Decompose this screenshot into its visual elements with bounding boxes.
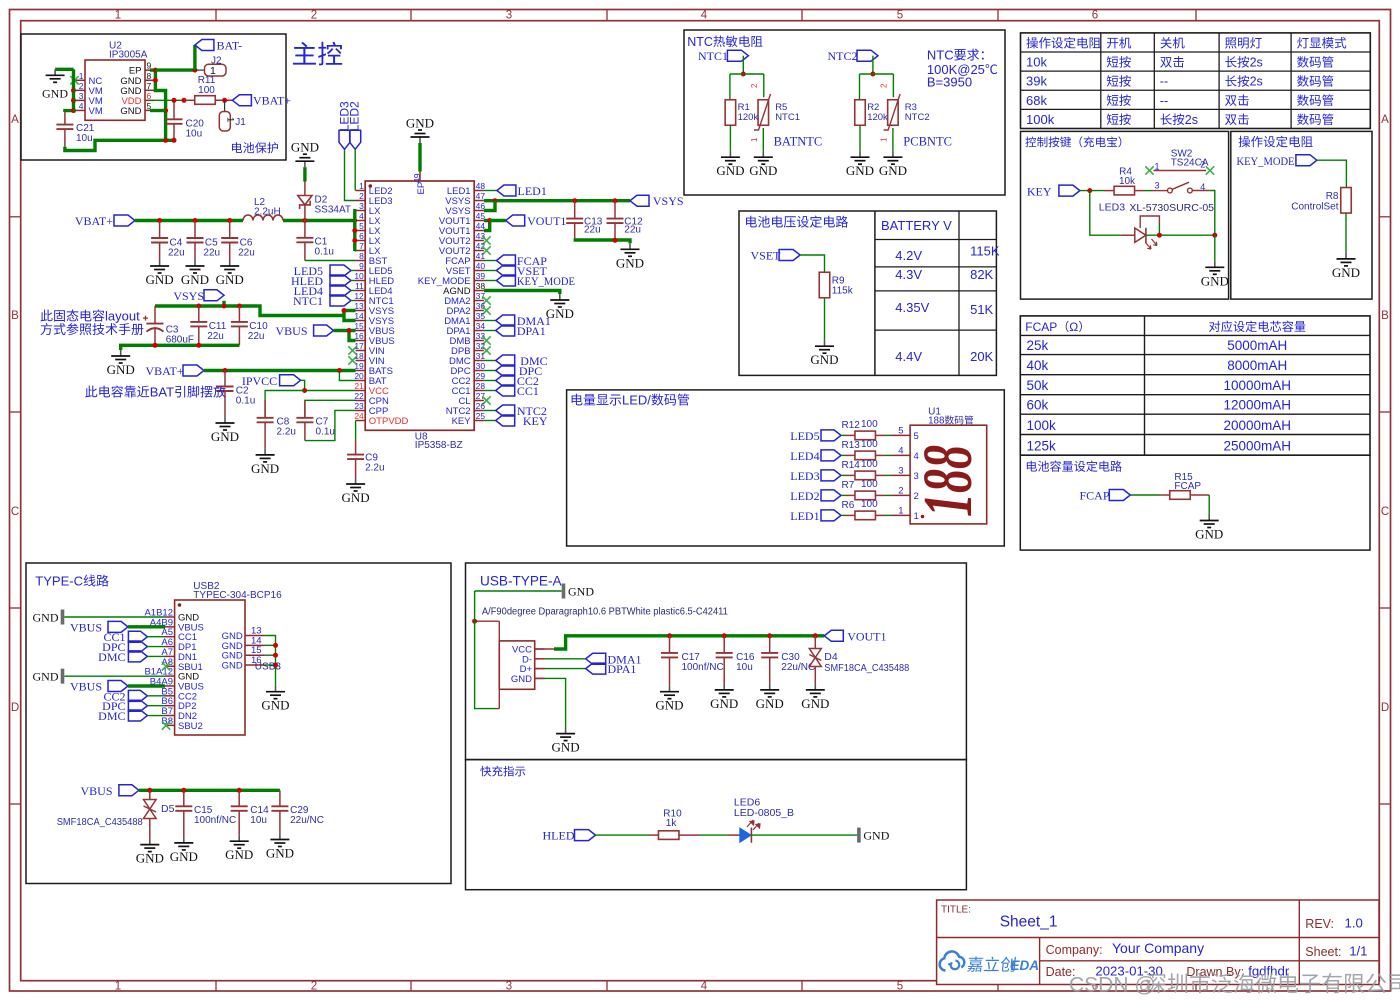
svg-text:SMF18CA_C435488: SMF18CA_C435488 xyxy=(57,817,143,828)
svg-text:GND: GND xyxy=(222,661,243,672)
svg-text:EDA: EDA xyxy=(1011,958,1040,973)
svg-text:10k: 10k xyxy=(1026,55,1047,70)
svg-text:14: 14 xyxy=(354,311,364,321)
svg-text:GND: GND xyxy=(266,846,294,861)
wire VCC to C8 xyxy=(265,391,305,418)
svg-text:A: A xyxy=(11,114,19,126)
svg-text:115k: 115k xyxy=(832,286,854,297)
TYPE-C bottom VBUS rail xyxy=(119,785,139,796)
U1 pin 3 xyxy=(890,474,910,476)
wire KEY to R4 xyxy=(1080,190,1104,192)
net flags LED5 HLED LED4 NTC1 xyxy=(330,265,351,276)
svg-text:VOUT1: VOUT1 xyxy=(527,214,566,228)
svg-text:GND: GND xyxy=(181,272,209,287)
svg-text:2.2u: 2.2u xyxy=(365,463,384,474)
svg-text:4.3V: 4.3V xyxy=(895,267,922,282)
svg-text:J2: J2 xyxy=(211,56,222,67)
U8 left pins xyxy=(356,190,366,192)
svg-text:GND: GND xyxy=(42,87,68,101)
JLCEDA logo xyxy=(940,951,965,970)
svg-text:D: D xyxy=(11,702,19,714)
svg-text:38: 38 xyxy=(476,281,486,291)
U8 EP pin 49 xyxy=(419,172,421,182)
AGND wire to GND xyxy=(484,291,560,295)
svg-text:GND: GND xyxy=(716,163,744,178)
label 电池电压设定电路 xyxy=(746,216,757,228)
TYPE-C GND bar flags xyxy=(61,610,65,625)
battery voltage table xyxy=(874,211,876,375)
svg-text:GND: GND xyxy=(655,698,683,713)
svg-text:GND: GND xyxy=(756,696,784,711)
svg-text:2: 2 xyxy=(914,491,919,502)
svg-text:GND: GND xyxy=(291,140,319,155)
net flag LED2 (vertical) xyxy=(350,130,361,149)
svg-text:CSDN @: CSDN @ xyxy=(1069,974,1156,997)
svg-text:8: 8 xyxy=(359,251,364,261)
svg-text:NTC1: NTC1 xyxy=(775,112,800,123)
svg-text:Ω: Ω xyxy=(1069,320,1078,334)
svg-text:27: 27 xyxy=(476,391,486,401)
svg-text:7: 7 xyxy=(359,241,364,251)
svg-text:LED1: LED1 xyxy=(790,509,819,523)
capacitor C30 22u/NC xyxy=(769,636,771,653)
GND bar flag top xyxy=(562,584,566,599)
svg-text:23: 23 xyxy=(354,401,364,411)
wire EP to BAT- and J2 xyxy=(155,68,195,71)
svg-text:VOUT1: VOUT1 xyxy=(847,629,886,643)
svg-text:4: 4 xyxy=(701,10,708,22)
svg-text:GND: GND xyxy=(810,352,838,367)
svg-text:C: C xyxy=(1381,506,1389,518)
LED diode LED3 xyxy=(1121,234,1135,236)
wire LED3 flag to pin2 xyxy=(345,149,356,200)
svg-text:7: 7 xyxy=(147,81,152,91)
svg-text:47: 47 xyxy=(476,191,486,201)
svg-text:4.4V: 4.4V xyxy=(895,349,922,364)
net flag NTC2 xyxy=(857,50,878,61)
wire NTC2 node xyxy=(872,56,874,74)
wire FCAP to R15 xyxy=(1130,494,1159,496)
svg-text:2.2u: 2.2u xyxy=(277,427,296,438)
svg-text:37: 37 xyxy=(476,291,486,301)
resistor R9 115k xyxy=(819,272,830,298)
GND net flag at U2 xyxy=(55,68,73,71)
svg-text:50k: 50k xyxy=(1027,378,1049,393)
wire pin46 to VSYS xyxy=(484,201,495,211)
resistor R11 100 xyxy=(184,99,194,101)
svg-text:2: 2 xyxy=(898,485,903,496)
wire shell to GND left xyxy=(498,621,500,641)
net flag LED4 xyxy=(821,450,841,461)
thermistor R5 NTC1 xyxy=(758,100,769,126)
resistor R13 100 xyxy=(841,454,846,456)
svg-text:LED1: LED1 xyxy=(518,184,547,198)
svg-text:REV:: REV: xyxy=(1305,917,1334,931)
wire VDD net xyxy=(150,99,184,101)
svg-text:ControlSet: ControlSet xyxy=(1291,202,1338,213)
U1 pin 4 xyxy=(890,454,910,456)
USB-A GND pin wire xyxy=(535,677,545,679)
key mode box outline xyxy=(1231,131,1372,299)
wire NTC1 node xyxy=(742,56,744,74)
capacitor C12 22u xyxy=(614,201,616,219)
svg-text:GND: GND xyxy=(552,740,580,755)
wire LED to GND corner xyxy=(1146,234,1215,236)
svg-text:TYPEC-304-BCP16: TYPEC-304-BCP16 xyxy=(193,590,282,601)
CSDN watermark xyxy=(1069,973,1400,997)
svg-text:35: 35 xyxy=(476,311,486,321)
svg-text:5: 5 xyxy=(897,981,903,993)
svg-text:25: 25 xyxy=(476,411,486,421)
net flags NTC2 KEY xyxy=(484,410,496,412)
svg-text:24: 24 xyxy=(354,411,364,421)
svg-text:1: 1 xyxy=(1155,162,1160,172)
LED6 arrows xyxy=(747,820,760,830)
svg-text:VBUS: VBUS xyxy=(70,620,102,634)
inductor L2 2.2uH xyxy=(243,215,283,220)
junction dots on VM bus xyxy=(71,88,76,93)
svg-text:6: 6 xyxy=(359,231,364,241)
svg-text:IP3005A: IP3005A xyxy=(109,50,148,61)
svg-text:4: 4 xyxy=(79,101,84,111)
svg-text:1.0: 1.0 xyxy=(1345,916,1363,931)
svg-text:0.1u: 0.1u xyxy=(236,396,255,407)
capacitor C4 22u xyxy=(159,221,161,239)
svg-text:68k: 68k xyxy=(1026,93,1047,108)
net flags DMC DPC CC2 CC1 xyxy=(484,360,496,362)
svg-text:A: A xyxy=(1381,114,1389,126)
svg-text:100nf/NC: 100nf/NC xyxy=(682,662,724,673)
svg-text:4: 4 xyxy=(701,981,708,993)
svg-text:R8: R8 xyxy=(1326,191,1339,202)
capacitor C11 22u xyxy=(198,306,200,322)
net flag IPVCC xyxy=(280,375,301,386)
svg-text:2: 2 xyxy=(359,191,364,201)
GND above D2 xyxy=(303,167,306,181)
svg-text:0.1u: 0.1u xyxy=(316,427,335,438)
VBUS wire and pin bus xyxy=(334,329,356,332)
svg-text:5000mAH: 5000mAH xyxy=(1227,338,1287,353)
wire C21 bottom rail xyxy=(65,140,176,150)
svg-text:22u/NC: 22u/NC xyxy=(781,662,815,673)
TVS diode D5 SMF18CA xyxy=(149,790,151,799)
svg-text:4.2V: 4.2V xyxy=(895,248,922,263)
svg-text:22: 22 xyxy=(354,391,364,401)
wire USB2 GND pins join xyxy=(265,636,276,686)
resistor R12 100 xyxy=(841,434,846,436)
svg-text:0.1u: 0.1u xyxy=(315,247,334,258)
svg-text:NTC1: NTC1 xyxy=(698,49,728,63)
svg-text:layout: layout xyxy=(105,309,140,324)
VSYS thick wire right xyxy=(484,199,630,202)
svg-text:125k: 125k xyxy=(1027,438,1057,453)
svg-text:LED4: LED4 xyxy=(790,449,819,463)
svg-text:4: 4 xyxy=(898,445,903,456)
svg-text:KEY: KEY xyxy=(452,416,472,427)
U2 right pins xyxy=(145,69,155,71)
svg-text:LED-0805_B: LED-0805_B xyxy=(734,807,794,819)
svg-text:100: 100 xyxy=(861,439,878,450)
resistor R14 100 xyxy=(841,474,846,476)
svg-text:3: 3 xyxy=(79,91,84,101)
resistor R8 ControlSet xyxy=(1341,188,1352,214)
svg-text:FCAP: FCAP xyxy=(1079,489,1109,503)
svg-text:44: 44 xyxy=(476,221,486,231)
svg-text:10u: 10u xyxy=(736,662,753,673)
svg-text:1: 1 xyxy=(898,505,903,516)
svg-text:VSET: VSET xyxy=(751,249,782,263)
svg-text:3: 3 xyxy=(1155,181,1160,191)
LED3 pin2 bracket xyxy=(1140,216,1159,228)
svg-text:22u: 22u xyxy=(248,331,265,342)
resistor R2 120k xyxy=(855,100,866,126)
wire L2 to LX pins xyxy=(283,219,355,222)
C13 C12 ground rail xyxy=(574,240,630,243)
net flag VBAT+ at BATS xyxy=(183,365,204,376)
svg-text:82K: 82K xyxy=(970,267,993,282)
svg-text:GND: GND xyxy=(251,461,279,476)
net flag VSET left xyxy=(779,250,800,261)
capacitor C2 0.1u xyxy=(224,371,226,387)
wire HLED to R10 xyxy=(596,834,650,836)
svg-text:GND: GND xyxy=(170,849,198,864)
svg-text:25000mAH: 25000mAH xyxy=(1224,438,1292,453)
svg-text:Your Company: Your Company xyxy=(1112,940,1204,956)
svg-text:GND: GND xyxy=(1201,273,1229,288)
svg-text:22u/NC: 22u/NC xyxy=(290,815,324,826)
svg-text:8: 8 xyxy=(147,71,152,81)
svg-text:3: 3 xyxy=(506,981,512,993)
svg-text:FCAP: FCAP xyxy=(1025,320,1057,334)
label 电池保护 xyxy=(232,142,242,153)
U1 pin 5 xyxy=(890,434,910,436)
capacitor C6 22u xyxy=(229,221,231,239)
wire pin44 to VOUT1 xyxy=(484,221,490,231)
svg-text:GND: GND xyxy=(261,698,289,713)
svg-text:2s: 2s xyxy=(1185,113,1198,127)
svg-text:R14: R14 xyxy=(842,460,861,471)
resistor R15 FCAP xyxy=(1160,494,1170,496)
U1 pin1 origin dot xyxy=(921,515,925,519)
svg-text:22u: 22u xyxy=(168,248,185,259)
svg-text:A/F90degree Dparagraph10.6 PBT: A/F90degree Dparagraph10.6 PBTWhite plas… xyxy=(482,607,728,618)
svg-text:D4: D4 xyxy=(824,651,838,663)
net flag LED5 xyxy=(821,430,841,441)
svg-text:1: 1 xyxy=(359,181,364,191)
U2 left pins xyxy=(76,79,86,81)
capacitor C8 2.2u xyxy=(264,400,266,418)
svg-text:6: 6 xyxy=(147,91,152,101)
LED3 arrows xyxy=(1146,239,1158,249)
svg-text:NTC2: NTC2 xyxy=(828,49,858,63)
label 快充指示 xyxy=(480,766,491,777)
svg-text:GND: GND xyxy=(749,163,777,178)
connector J2 xyxy=(195,69,205,71)
VSYS net flag and C3 C11 C10 rail xyxy=(204,290,224,301)
svg-text:DPA1: DPA1 xyxy=(517,324,546,338)
svg-text:10: 10 xyxy=(354,271,364,281)
wires D- D+ to flags xyxy=(535,658,545,660)
svg-text:PCBNTC: PCBNTC xyxy=(903,135,952,149)
svg-text:26: 26 xyxy=(476,401,486,411)
net flag LED1 xyxy=(484,190,497,192)
svg-text:USB3: USB3 xyxy=(255,662,282,673)
wire SW2 pin4 down xyxy=(1210,191,1215,236)
svg-text:34: 34 xyxy=(476,321,486,331)
svg-text:VBUS: VBUS xyxy=(275,324,307,338)
svg-text:IP5358-BZ: IP5358-BZ xyxy=(415,440,463,451)
net flags DMA1 DPA1 xyxy=(484,320,496,322)
svg-text:SS34AT: SS34AT xyxy=(315,205,352,216)
TYPE-C signal flags group B xyxy=(128,690,147,701)
diode D2 SS34AT schottky xyxy=(304,182,306,196)
svg-text:5: 5 xyxy=(897,10,903,22)
svg-text:2: 2 xyxy=(79,81,84,91)
bottom rail to GND xyxy=(121,345,240,350)
net flag LED1 xyxy=(821,510,841,521)
svg-text:3: 3 xyxy=(914,471,919,482)
svg-text:GND: GND xyxy=(33,670,59,684)
TYPE-C box outline xyxy=(26,563,451,884)
svg-text:32: 32 xyxy=(476,341,486,351)
svg-text:LED2: LED2 xyxy=(347,101,361,131)
svg-text:49: 49 xyxy=(412,173,422,183)
net flag VBUS xyxy=(314,325,334,336)
svg-text:GND: GND xyxy=(879,163,907,178)
net flag VBAT+ right of R11 xyxy=(232,95,251,106)
svg-text:--: -- xyxy=(1160,94,1168,108)
svg-text:100k: 100k xyxy=(1026,112,1055,127)
svg-text:R12: R12 xyxy=(842,420,861,431)
label 电量显示LED/数码管 xyxy=(572,394,583,406)
capacitor C7 0.1u xyxy=(304,400,306,418)
svg-text:KEY_MODE: KEY_MODE xyxy=(517,274,575,288)
svg-text:XL-5730SURC-05: XL-5730SURC-05 xyxy=(1129,202,1214,214)
LX pin bus xyxy=(353,209,356,251)
wire KEY_MODE to R8 xyxy=(1317,160,1347,191)
svg-text:2: 2 xyxy=(750,83,759,88)
U1 188 display body xyxy=(910,425,987,524)
svg-text:DMC: DMC xyxy=(98,709,125,723)
svg-text:R13: R13 xyxy=(842,440,861,451)
svg-text:11: 11 xyxy=(355,281,364,291)
svg-text:3: 3 xyxy=(898,465,903,476)
svg-text:22u: 22u xyxy=(203,248,220,259)
svg-text:NTC1: NTC1 xyxy=(293,294,323,308)
svg-text:GND: GND xyxy=(863,829,889,843)
svg-text:VM: VM xyxy=(89,106,103,117)
svg-text:SBU2: SBU2 xyxy=(178,721,203,732)
svg-text:22u: 22u xyxy=(238,248,255,259)
svg-text:40: 40 xyxy=(476,261,486,271)
U8 right pins xyxy=(474,190,484,192)
title block outline xyxy=(937,900,1379,985)
svg-text:TYPE-C: TYPE-C xyxy=(35,574,83,589)
net flag LED3 (vertical) xyxy=(339,130,350,149)
svg-text:21: 21 xyxy=(354,381,364,391)
wire KEY node down to LED xyxy=(1090,191,1121,236)
svg-text:BATTERY V: BATTERY V xyxy=(881,218,952,233)
svg-text:22u: 22u xyxy=(624,225,641,236)
label 操作设定电阻 right xyxy=(1239,136,1251,148)
svg-text:SMF18CA_C435488: SMF18CA_C435488 xyxy=(824,663,909,674)
svg-text:J1: J1 xyxy=(235,117,246,128)
LED6 blue LED xyxy=(700,834,728,836)
battery protection box outline xyxy=(21,34,286,160)
capacitor C15 100nf/NC xyxy=(183,790,185,806)
svg-text:39k: 39k xyxy=(1026,74,1047,89)
svg-text:1: 1 xyxy=(79,71,84,81)
net flags DMA1 DPA1 usb xyxy=(586,653,606,664)
svg-text:LED3: LED3 xyxy=(790,469,819,483)
connector J1 xyxy=(224,100,226,111)
svg-text:42: 42 xyxy=(476,241,486,251)
svg-text:GND: GND xyxy=(33,611,59,625)
svg-text:GND: GND xyxy=(1195,527,1223,542)
svg-text:NTC: NTC xyxy=(687,35,713,49)
USB-A connector body xyxy=(499,641,534,689)
svg-text:Sheet:: Sheet: xyxy=(1305,945,1341,959)
svg-text:120k: 120k xyxy=(867,112,888,123)
svg-text:48: 48 xyxy=(476,181,486,191)
svg-text:40k: 40k xyxy=(1027,358,1049,373)
svg-text:LED5: LED5 xyxy=(790,429,819,443)
svg-text:TITLE:: TITLE: xyxy=(941,905,971,916)
svg-text:1: 1 xyxy=(750,137,759,142)
svg-text:KEY: KEY xyxy=(523,414,548,428)
label 控制按键（充电宝） xyxy=(1025,137,1036,148)
svg-text:1: 1 xyxy=(880,137,889,142)
note 此固态电容layout xyxy=(41,310,53,322)
svg-text:D5: D5 xyxy=(161,803,175,815)
svg-text:DMC: DMC xyxy=(98,650,125,664)
svg-text:GND: GND xyxy=(616,255,644,270)
wire R15 to GND xyxy=(1208,495,1210,515)
capacitor C21 10u xyxy=(64,112,66,125)
svg-text:GND: GND xyxy=(801,696,829,711)
TVS diode D4 SMF18CA xyxy=(814,636,816,649)
svg-text:3: 3 xyxy=(506,10,512,22)
battery voltage box outline xyxy=(739,211,996,375)
svg-text:GND: GND xyxy=(846,163,874,178)
net flag VOUT1 xyxy=(490,219,506,222)
svg-text:36: 36 xyxy=(476,301,486,311)
svg-text:GND: GND xyxy=(225,847,253,862)
svg-text:CC1: CC1 xyxy=(517,384,539,398)
svg-text:NTC2: NTC2 xyxy=(905,112,930,123)
resistor R1 120k xyxy=(725,100,736,126)
USB-TYPE-A box outline xyxy=(466,563,967,760)
svg-text:GND: GND xyxy=(120,106,141,117)
svg-text:4: 4 xyxy=(359,211,364,221)
GND above EP xyxy=(418,143,421,172)
svg-text:GND: GND xyxy=(146,272,174,287)
table header row xyxy=(1026,37,1038,49)
svg-text:2.2uH: 2.2uH xyxy=(254,207,281,218)
svg-text:51K: 51K xyxy=(970,302,993,317)
svg-text:1: 1 xyxy=(115,981,121,993)
svg-text:20: 20 xyxy=(354,371,364,381)
net flags FCAP VSET KEY_MODE xyxy=(484,260,497,262)
U1 pin 2 xyxy=(890,494,910,496)
svg-text:1: 1 xyxy=(115,10,121,22)
svg-text:31: 31 xyxy=(476,351,486,361)
svg-text:HLED: HLED xyxy=(543,829,575,843)
capacitor C3 680uF polarized xyxy=(154,306,156,324)
IC U8 IP5358-BZ body xyxy=(365,181,474,430)
svg-text:4: 4 xyxy=(914,451,919,462)
svg-text:DPA1: DPA1 xyxy=(608,662,637,676)
